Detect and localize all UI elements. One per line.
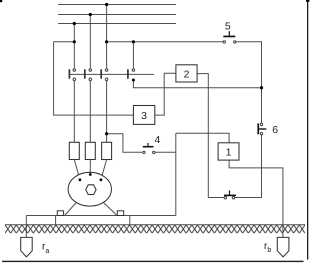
pole4 top contact [132, 69, 135, 72]
node dot L3 tap [73, 22, 76, 25]
motor foot left [57, 211, 63, 216]
node dot pole4 bottom [132, 79, 135, 82]
bottom pushbutton [224, 190, 236, 199]
pole2 blade tick [84, 69, 86, 78]
pole3 blade tick [100, 69, 102, 78]
wire phase drop pole2 [89, 15, 91, 69]
wire phase drop pole3 [106, 5, 108, 69]
svg-text:5: 5 [225, 21, 231, 33]
pole1 top contact [73, 69, 76, 72]
motor shaft hexagon [86, 185, 96, 195]
wire to box1 top [176, 133, 229, 143]
frame tick top-left [0, 0, 2, 2]
node dot control-pole4 [132, 40, 135, 43]
earth electrode rb [277, 237, 289, 257]
svg-text:1: 1 [226, 146, 232, 158]
wire pole4 to right rail [133, 81, 261, 88]
node dot control-pole3 [105, 40, 108, 43]
switch linkage bar [69, 73, 154, 75]
wire right rail lower [235, 135, 262, 198]
wire tap to switch4 [107, 134, 143, 153]
lead fuse R3 to motor [101, 160, 106, 179]
platform ground line [26, 215, 176, 217]
wire electrode ra drop [25, 216, 27, 238]
wire pole1 to fuse R1 [73, 81, 75, 143]
fuse F3 [102, 142, 112, 159]
wire pole3 to fuse R3 [106, 81, 108, 143]
wire switch4 to mid vertical [155, 151, 176, 153]
node dot control-pole1 [73, 40, 76, 43]
bus line L3 [58, 23, 176, 25]
wire control segment A [54, 41, 75, 43]
bus line L2 [58, 14, 176, 16]
pole2 bottom contact [89, 78, 92, 81]
box 2 relay [176, 65, 197, 82]
frame bottom border [2, 261, 304, 262]
wire box1 bottom to electrode rb [229, 160, 283, 237]
node dot switch4 tap [105, 132, 108, 135]
frame right border [307, 0, 308, 260]
box 3 relay [133, 106, 154, 125]
lead fuse R1 to motor [74, 160, 79, 179]
platform post left [55, 216, 57, 225]
earth electrode ra [21, 237, 33, 257]
pole3 bottom contact [105, 78, 108, 81]
earth hatch band [5, 225, 305, 234]
motor foot right [117, 211, 123, 216]
svg-text:2: 2 [184, 68, 190, 80]
wire box2 left elbow to box3 [155, 73, 176, 115]
node dot L2 tap [89, 13, 92, 16]
platform post right [129, 216, 131, 225]
fuse F2 [85, 142, 95, 159]
motor terminal dot left [79, 178, 82, 181]
wire box2 right rail down to pushbutton [197, 74, 224, 198]
pole2 top contact [89, 69, 92, 72]
switch 5 pushbutton [223, 31, 236, 43]
bus line L1 [58, 4, 176, 6]
motor body [68, 172, 111, 206]
box 1 relay [218, 143, 239, 160]
switch 4 pushbutton [143, 143, 155, 154]
pole1 blade tick [68, 69, 70, 78]
wire pole2 to fuse R2 [89, 81, 91, 143]
node dot L1 tap [105, 3, 108, 6]
lead fuse R2 to motor [89, 160, 91, 174]
fuse F1 [69, 142, 79, 159]
motor terminal dot middle [89, 173, 92, 176]
motor left leg [65, 203, 77, 216]
node dot right rail [260, 86, 263, 89]
wire phase drop pole1 [73, 24, 75, 69]
wire control segment B [107, 41, 224, 43]
pole4 blade tick [127, 69, 129, 78]
wire pole4 drop [132, 42, 134, 69]
pole1 bottom contact [73, 78, 76, 81]
motor terminal dot right [100, 178, 103, 181]
wire switch5 to right rail [236, 42, 262, 124]
wire mid vertical to platform [175, 133, 177, 215]
svg-text:6: 6 [272, 124, 278, 136]
svg-text:4: 4 [154, 134, 160, 146]
svg-text:3: 3 [141, 110, 147, 122]
4-pole switch poles [69, 69, 128, 78]
pole3 top contact [105, 69, 108, 72]
switch 6 pushbutton [257, 123, 266, 135]
wire left rail to box3 [54, 42, 134, 115]
motor right leg [104, 203, 117, 216]
